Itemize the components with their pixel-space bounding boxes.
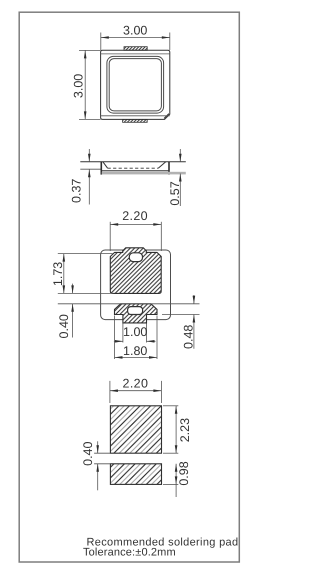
dim 0.40 (fig4) : arrow segments bbox=[97, 441, 99, 453]
lens rim inner rounded square bbox=[109, 59, 161, 111]
svg-text:3.00: 3.00 bbox=[123, 23, 147, 37]
dim 0.57 : dimension line segments with arrows bbox=[179, 149, 181, 162]
dim 0.40 (fig4) : extension lines bbox=[94, 452, 110, 454]
left extension of 0.37 bbox=[80, 168, 101, 170]
border frame bbox=[19, 12, 239, 562]
side view top surface line bbox=[80, 161, 186, 163]
dim 0.98 : dimension line bbox=[175, 464, 177, 485]
dim 1.80 : extension lines bbox=[114, 316, 116, 360]
dim 3.00 top : extension lines bbox=[100, 33, 102, 51]
body bottom line bbox=[101, 170, 169, 172]
dim 1.73 : dimension line bbox=[63, 254, 65, 294]
dim 2.20 (fig4) : dimension line bbox=[110, 390, 161, 392]
cavity left slant bbox=[103, 162, 108, 168]
svg-text:3.00: 3.00 bbox=[72, 74, 86, 98]
dim 0.40 (fig3) : arrow segments bbox=[72, 284, 74, 294]
cavity floor dashed line bbox=[108, 167, 159, 169]
electrode bar (gray) bbox=[102, 172, 186, 175]
lower solder pad (hatched) bbox=[110, 464, 161, 485]
svg-text:1.80: 1.80 bbox=[123, 344, 147, 358]
svg-text:0.48: 0.48 bbox=[182, 325, 196, 349]
cavity right slant bbox=[158, 162, 166, 168]
bottom step line bbox=[101, 115, 170, 117]
dim 1.00 : arrow segments bbox=[114, 340, 123, 342]
dim 3.00 top : dimension line bbox=[101, 37, 170, 39]
dim 2.23 : dimension line bbox=[175, 406, 177, 453]
svg-text:Tolerance:±0.2mm: Tolerance:±0.2mm bbox=[83, 547, 176, 559]
svg-text:0.98: 0.98 bbox=[177, 461, 191, 485]
upper pad (hatched) with top bump bbox=[110, 248, 161, 294]
svg-text:2.23: 2.23 bbox=[178, 418, 192, 442]
dim 2.20 (fig3) : dimension line bbox=[110, 223, 161, 225]
dim 1.80 : arrow segments bbox=[115, 356, 158, 358]
dim 1.00 : extension lines bbox=[122, 324, 124, 343]
svg-text:0.40: 0.40 bbox=[81, 441, 95, 465]
svg-text:0.57: 0.57 bbox=[168, 181, 182, 205]
package outline (top view) with chamfered bottom-right corner bbox=[101, 50, 170, 119]
upper solder pad (hatched) bbox=[110, 406, 161, 453]
body right edge bbox=[168, 162, 170, 175]
dim 0.37 : dimension line segments with arrows bbox=[88, 149, 90, 162]
dim 0.98 : extension line bbox=[163, 483, 178, 485]
top step line bbox=[101, 53, 170, 55]
dim 3.00 left : dimension line bbox=[84, 50, 86, 119]
chamfer inner line bbox=[164, 114, 169, 119]
svg-text:0.40: 0.40 bbox=[57, 314, 71, 338]
lens rim outer rounded square bbox=[107, 56, 164, 113]
dim 2.23 : extension lines bbox=[163, 405, 178, 407]
svg-text:1.00: 1.00 bbox=[123, 325, 147, 339]
lower pad notch (white) bbox=[128, 307, 143, 315]
svg-text:2.20: 2.20 bbox=[122, 209, 148, 223]
dim 2.20 (fig3) : extension lines bbox=[109, 222, 111, 251]
dim 0.40 (fig3) : extension line bbox=[58, 303, 200, 305]
body left edge bbox=[100, 162, 102, 175]
dim 0.48 : extension lines bbox=[162, 314, 200, 316]
svg-text:1.73: 1.73 bbox=[51, 262, 65, 286]
svg-text:2.20: 2.20 bbox=[123, 376, 149, 390]
package outline (bottom view) bbox=[101, 250, 171, 320]
lower pad (hatched) strip with center column bbox=[115, 304, 158, 323]
dim 0.48 : arrow segments bbox=[193, 295, 195, 304]
top electrode tab (hatched) bbox=[124, 47, 147, 51]
bottom electrode tab (hatched) bbox=[123, 119, 148, 122]
dim 2.20 (fig4) : extension lines bbox=[109, 381, 111, 403]
dim 3.00 left : extension lines bbox=[79, 49, 101, 51]
dim 0.98 : tail below bbox=[175, 484, 177, 497]
svg-text:0.37: 0.37 bbox=[69, 179, 83, 203]
dim 1.73 : extension lines bbox=[58, 253, 113, 255]
upper pad cathode notch (white) bbox=[129, 253, 142, 262]
